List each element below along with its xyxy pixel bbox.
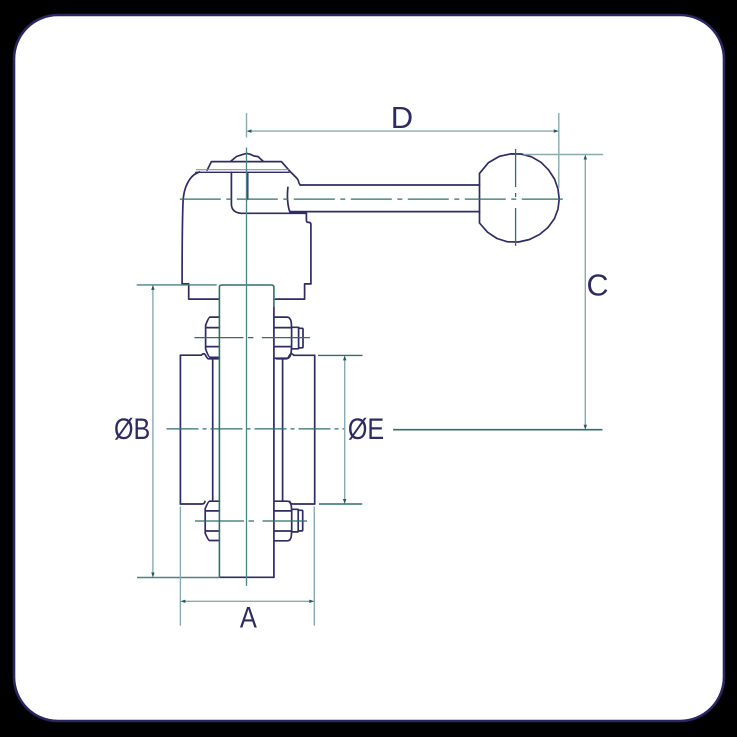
disc right edge (navy part) <box>273 307 275 577</box>
bottom-right jam nut <box>292 509 303 532</box>
right bolt shank <box>282 359 284 501</box>
ØE dimension line <box>344 359 346 501</box>
D dimension line <box>250 130 555 132</box>
handle butt end arc <box>287 187 289 211</box>
left flange outer edge <box>179 355 181 504</box>
top bolt axis centerline <box>194 337 310 339</box>
main vertical centerline <box>246 148 248 586</box>
actuator head bottom-left and left foot <box>182 284 219 299</box>
ØB dimension line <box>152 288 154 574</box>
svg-text:ØE: ØE <box>348 413 384 446</box>
ØB bottom extension line <box>137 577 219 579</box>
head shelf line <box>241 212 307 214</box>
disc bottom edge <box>220 576 274 578</box>
C dimension line <box>584 158 586 426</box>
A right extension line <box>313 507 315 626</box>
knob dome on cap (faceted) <box>230 153 263 161</box>
ØB top arrow <box>151 285 154 290</box>
right flange outer edge <box>314 355 316 504</box>
right flange bottom edge <box>290 501 315 504</box>
A left arrow <box>180 600 185 603</box>
svg-text:A: A <box>240 602 257 635</box>
left flange top edge with washer jog <box>180 354 219 359</box>
top-left hex nut <box>206 317 220 357</box>
D left arrow <box>247 129 252 132</box>
C top extension line <box>524 154 604 156</box>
handle ball knob <box>480 154 560 242</box>
A right arrow <box>309 600 314 603</box>
handle axis centerline <box>180 198 568 200</box>
right flange top edge with washer jog <box>276 354 315 359</box>
top-right jam nut <box>292 327 303 349</box>
actuator cap bottom line <box>197 169 290 171</box>
svg-text:C: C <box>586 269 608 303</box>
ØE bottom arrow <box>343 499 346 504</box>
ØE top arrow <box>343 355 346 360</box>
bottom bolt axis centerline <box>195 520 307 522</box>
C top arrow <box>584 155 587 160</box>
actuator head outline left <box>182 172 199 284</box>
ØE bottom extension line <box>319 503 362 505</box>
actuator head right edge <box>306 213 311 284</box>
left flange bottom edge <box>180 501 205 504</box>
A left extension line <box>179 507 181 626</box>
C bottom extension line (dark) <box>393 429 602 431</box>
ØB bottom arrow <box>151 573 154 578</box>
C bottom arrow <box>584 425 587 430</box>
bottom-right hex nut <box>275 501 292 541</box>
ØB top extension line <box>137 284 217 286</box>
svg-text:ØB: ØB <box>114 413 150 446</box>
actuator cap lower line <box>196 171 289 173</box>
actuator cap plate <box>207 162 289 171</box>
left bolt shank <box>212 359 214 501</box>
svg-text:D: D <box>391 100 413 135</box>
D right arrow <box>554 129 559 132</box>
neck / disc left edge (teal) <box>219 285 274 577</box>
ball vertical centerline <box>515 149 517 248</box>
handle shaft fillet at cap <box>289 170 300 185</box>
handle shaft bottom line <box>290 211 480 213</box>
bottom-left hex nut <box>205 501 219 540</box>
inner channel right edge <box>247 172 249 199</box>
handle shaft top line <box>300 184 479 186</box>
top-right hex nut <box>275 317 292 358</box>
ØE top extension line <box>318 354 363 356</box>
valve axis centerline <box>167 428 345 430</box>
D right extension line <box>558 113 560 188</box>
actuator head bottom-right and right foot <box>275 284 311 299</box>
D left extension (above dim line) <box>246 113 248 138</box>
A dimension line <box>184 600 311 602</box>
inner channel below cap <box>231 172 241 213</box>
